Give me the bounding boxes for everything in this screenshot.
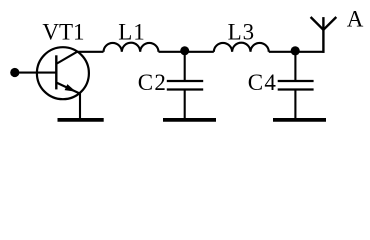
wire: L3 to antenna [269, 51, 325, 53]
svg-text:C2: C2 [138, 70, 167, 95]
junction node 2 [291, 46, 300, 55]
capacitor C4 lead bottom [294, 90, 296, 120]
antenna riser [322, 17, 324, 53]
capacitor C4 lead top [294, 52, 296, 81]
ground bar 2 [163, 118, 216, 122]
inductor L1 [104, 43, 159, 52]
transistor VT1 [37, 47, 89, 99]
wire: collector to L1 [77, 51, 104, 53]
wire: input to base [13, 72, 56, 74]
svg-text:VT1: VT1 [42, 20, 84, 45]
capacitor C2 lead bottom [184, 90, 186, 120]
svg-text:C4: C4 [248, 70, 277, 95]
antenna left branch [311, 17, 324, 30]
ground bar 1 [58, 118, 104, 122]
svg-text:L3: L3 [228, 20, 256, 45]
capacitor C4 plates [278, 80, 314, 82]
junction node 1 [180, 46, 189, 55]
inductor L3 [214, 43, 269, 52]
antenna right branch [323, 17, 336, 30]
wire: emitter to ground [79, 93, 81, 119]
input terminal dot [10, 68, 19, 77]
svg-text:A: A [347, 7, 364, 32]
capacitor C2 lead top [184, 52, 186, 81]
capacitor C2 plates [167, 80, 203, 82]
wire: L1 to L3 [159, 51, 214, 53]
svg-text:L1: L1 [118, 20, 146, 45]
ground bar 3 [273, 118, 326, 122]
